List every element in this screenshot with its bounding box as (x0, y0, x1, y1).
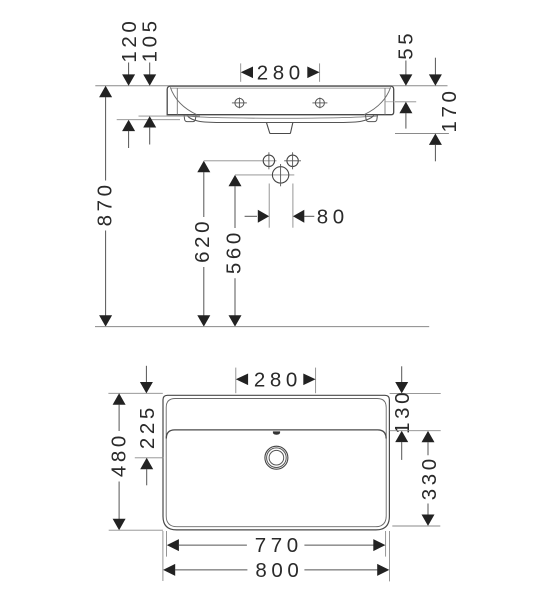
dimension 870 (93, 86, 116, 327)
plan view drain outer ring (265, 446, 288, 469)
svg-text:105: 105 (139, 17, 162, 62)
dimension 55 (394, 30, 417, 129)
bottom reference line (floor) (95, 326, 429, 328)
dimension 130 (390, 366, 441, 460)
dimension 225 (135, 366, 164, 486)
extension line plan top-left (108, 392, 162, 394)
dimension 330 (392, 431, 441, 526)
svg-text:280: 280 (254, 368, 302, 391)
front view underside shadow line (185, 116, 378, 118)
dimension 770 (167, 531, 386, 557)
washbasin front view outline (167, 86, 394, 115)
svg-text:870: 870 (93, 181, 116, 226)
extension line 80 left (268, 184, 270, 228)
front view left foot (184, 115, 196, 122)
svg-text:770: 770 (255, 534, 303, 557)
extension line 80 right (292, 184, 294, 228)
front view drain fitting (267, 123, 293, 134)
top reference line (wall/top level) (95, 85, 447, 87)
dimension 480 (107, 393, 163, 530)
extension line 620 level (204, 160, 277, 162)
plan view overflow slot (273, 431, 280, 434)
washbasin plan view inner outline (166, 399, 386, 527)
dimension 120 (117, 18, 180, 148)
tap hole circle left (263, 152, 274, 169)
tap hole circle center large (272, 164, 288, 186)
extension line 560 level (235, 174, 294, 176)
extension line plan top-right (390, 392, 441, 394)
plan view drain inner ring (269, 450, 284, 465)
dimension 80 (245, 205, 349, 228)
washbasin plan view outer outline (163, 395, 389, 530)
front view right foot (365, 115, 377, 122)
svg-text:620: 620 (191, 218, 214, 263)
svg-text:170: 170 (438, 87, 461, 132)
svg-text:120: 120 (118, 18, 141, 63)
svg-text:560: 560 (223, 229, 246, 274)
front view inner wall left (176, 88, 178, 115)
tap hole circle right (284, 152, 301, 169)
svg-text:280: 280 (257, 61, 305, 84)
svg-text:55: 55 (394, 30, 417, 60)
front view bowl underside (187, 116, 374, 123)
front view bowl silhouette right (364, 87, 391, 114)
front view inner wall right (384, 88, 386, 115)
dimension 105 (139, 17, 201, 144)
dimension 280 (front view) (241, 61, 320, 84)
front view rim step right (385, 101, 394, 103)
front view bowl silhouette left (170, 87, 197, 114)
svg-text:800: 800 (255, 559, 303, 582)
front view second top line (171, 87, 391, 89)
front view tap hole mark left (232, 98, 247, 109)
dimension 620 (191, 161, 214, 327)
dimension 170 (395, 58, 461, 162)
svg-text:80: 80 (317, 205, 349, 228)
svg-text:130: 130 (391, 389, 414, 434)
front view tap hole mark right (312, 98, 327, 109)
plan view drain middle ring (267, 448, 287, 468)
svg-text:330: 330 (418, 455, 441, 500)
dimension 280 (plan view) (236, 368, 316, 394)
svg-text:225: 225 (136, 404, 159, 449)
plan view bowl edge / deck line (166, 430, 386, 439)
dimension 800 (163, 531, 390, 582)
svg-text:480: 480 (107, 432, 130, 477)
dimension 560 (223, 175, 246, 327)
